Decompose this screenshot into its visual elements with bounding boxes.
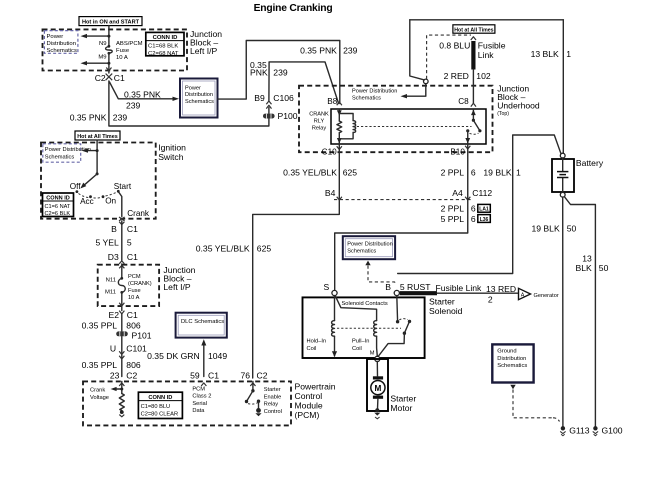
dashed wire from node to Hot at All Times: [427, 35, 471, 79]
svg-text:10 A: 10 A: [116, 55, 128, 61]
reference box Power Distribution Schematics (double border): [180, 79, 218, 118]
relay switch blade: [473, 120, 480, 131]
battery internal plates: [562, 158, 564, 192]
junction block - left I/P dashed box (PCM CRANK fuse): [98, 265, 159, 306]
svg-text:DLC Schematics: DLC Schematics: [181, 319, 224, 325]
svg-text:625: 625: [257, 243, 272, 253]
svg-text:0.35 DK GRN: 0.35 DK GRN: [147, 351, 200, 361]
solenoid contact pivot and blade: [399, 319, 408, 320]
svg-text:0.35 PNK: 0.35 PNK: [70, 112, 107, 122]
svg-text:Distribution: Distribution: [497, 356, 526, 362]
connector chevron at box exit: [106, 68, 111, 71]
svg-text:239: 239: [126, 100, 141, 110]
svg-text:5: 5: [127, 237, 132, 247]
svg-text:M9: M9: [98, 54, 106, 60]
fuse ABS/PCM 10A: [106, 47, 113, 54]
wire fusible link to C8: [472, 70, 474, 104]
svg-text:76: 76: [240, 371, 250, 381]
node circle (power feed tap): [424, 79, 429, 84]
wire battery bottom to G113: [562, 197, 564, 426]
connector X at ignition box exit: [119, 217, 125, 221]
reference box Ground Distribution Schematics: [492, 344, 533, 382]
reference box Power Distribution Schematics (top-left, dashed blue): [44, 31, 78, 54]
switch blade toward Off: [84, 174, 98, 186]
fusible link (5 RUST) thick bar: [400, 291, 437, 295]
battery terminal bottom: [560, 192, 565, 197]
ground G100: [593, 426, 597, 430]
svg-text:239: 239: [113, 112, 128, 122]
solenoid internal dashed link: [337, 327, 401, 329]
svg-text:Module: Module: [295, 400, 323, 410]
svg-text:B: B: [385, 282, 391, 292]
wire B to contact dot: [396, 296, 399, 322]
svg-text:Serial: Serial: [192, 401, 207, 407]
svg-text:102: 102: [476, 71, 491, 81]
relay coil branch with arrows: [338, 109, 340, 121]
svg-text:Generator: Generator: [534, 293, 559, 299]
svg-text:C1=6 NAT: C1=6 NAT: [45, 204, 71, 210]
svg-text:C1: C1: [127, 224, 138, 234]
svg-text:M: M: [374, 384, 381, 393]
svg-text:P101: P101: [132, 331, 152, 341]
svg-text:6: 6: [471, 167, 476, 177]
svg-text:C2: C2: [257, 371, 268, 381]
svg-text:19 BLK: 19 BLK: [531, 223, 559, 233]
relay switch: C8 leg with up arrow: [472, 109, 474, 120]
svg-text:C1: C1: [127, 310, 138, 320]
svg-text:Distribution: Distribution: [47, 41, 76, 47]
svg-text:B9: B9: [254, 93, 265, 103]
wire ignition B to D3: [121, 221, 123, 261]
svg-text:C106: C106: [273, 93, 294, 103]
tag Hot in ON and START: [79, 17, 142, 26]
svg-text:Coil: Coil: [352, 346, 362, 352]
svg-text:2 PPL: 2 PPL: [441, 204, 465, 214]
fuse PCM (CRANK) 10A: [118, 279, 125, 293]
svg-text:1: 1: [566, 49, 571, 59]
pull-in coil: [374, 321, 377, 337]
conn id box (C1=6 NAT / C2=6 BLK): [43, 193, 74, 217]
connector C2/C1 X symbol: [106, 74, 113, 81]
dashed reference wire to G113: [510, 385, 515, 390]
svg-text:0.35 YEL/BLK: 0.35 YEL/BLK: [283, 167, 337, 177]
relay switch to B10 with down arrow: [467, 131, 469, 144]
motor ground dot and arrow: [375, 408, 379, 412]
svg-text:B8: B8: [327, 97, 337, 106]
svg-text:Schematics: Schematics: [497, 363, 527, 369]
svg-text:Schematics: Schematics: [185, 99, 214, 105]
node dot at M9 branch: [107, 62, 110, 65]
svg-text:Off: Off: [70, 182, 81, 191]
wire fuse to E2: [121, 293, 123, 311]
wire S to hold-in coil: [334, 296, 336, 321]
svg-text:C2=80 CLEAR: C2=80 CLEAR: [141, 412, 178, 418]
reference box Power Distribution Schematics (solenoid B): [343, 236, 395, 259]
svg-text:Power: Power: [47, 34, 64, 40]
wire from PDS box right edge up and over to relay B8: [218, 41, 340, 104]
svg-text:Coil: Coil: [307, 346, 317, 352]
svg-text:Crank: Crank: [90, 388, 105, 394]
svg-text:50: 50: [567, 223, 577, 233]
svg-text:C1: C1: [127, 252, 138, 262]
connector chevron at fuse box exit: [119, 303, 124, 306]
svg-text:806: 806: [126, 321, 141, 331]
svg-text:Power: Power: [185, 86, 201, 92]
svg-text:6: 6: [471, 204, 476, 214]
wire M terminal to motor: [376, 362, 379, 410]
reference box DLC Schematics (double border): [176, 313, 227, 338]
svg-text:Battery: Battery: [576, 158, 604, 168]
connector chevron into PCM (23): [119, 383, 124, 386]
node dot at N9 branch: [107, 35, 110, 38]
svg-text:C1: C1: [208, 371, 219, 381]
svg-text:Ignition: Ignition: [158, 142, 186, 152]
splice P100: [263, 114, 275, 119]
svg-text:Switch: Switch: [158, 152, 184, 162]
wire arrow to power distribution (ignition): [85, 150, 97, 152]
svg-text:Hot at All Times: Hot at All Times: [454, 27, 493, 33]
wire fuse to C2 connector: [108, 54, 110, 74]
wire S to pull-in coil: [335, 296, 376, 321]
svg-text:Start: Start: [114, 182, 132, 191]
svg-text:G100: G100: [602, 426, 623, 436]
svg-text:Power Distribution: Power Distribution: [352, 89, 397, 95]
tag Hot at All Times (underhood): [453, 25, 495, 33]
svg-text:Engine Cranking: Engine Cranking: [254, 3, 333, 14]
crank voltage sense: wire and arrow: [121, 381, 123, 393]
svg-text:U: U: [110, 344, 116, 354]
top loop wire to battery: [410, 19, 564, 21]
svg-text:0.35 PNK: 0.35 PNK: [124, 89, 161, 99]
wire P100 up to C106: [268, 108, 270, 114]
svg-text:RLY: RLY: [314, 119, 325, 125]
svg-text:806: 806: [126, 360, 141, 370]
junction block - underhood dashed box: [299, 86, 493, 153]
wire 2 PPL 6 from B10 through C112 to solenoid S: [335, 144, 468, 290]
svg-text:Ground: Ground: [497, 348, 516, 354]
svg-text:ABS/PCM: ABS/PCM: [116, 41, 143, 47]
svg-text:Solenoid Contacts: Solenoid Contacts: [342, 301, 388, 307]
svg-text:Schematics: Schematics: [352, 96, 381, 102]
splice P101: [116, 331, 128, 336]
svg-text:PCM: PCM: [192, 386, 205, 392]
wire contact to M: [379, 333, 405, 356]
svg-text:Hot at All Times: Hot at All Times: [77, 134, 117, 140]
svg-text:P100: P100: [278, 111, 298, 121]
svg-text:L36: L36: [480, 217, 489, 223]
wire arrow pointing to Power Distribution Schematics: [404, 84, 426, 97]
svg-text:B4: B4: [325, 188, 336, 198]
svg-text:N9: N9: [99, 41, 107, 47]
wire 13 BLK 50 from battery bottom to G100: [564, 197, 595, 427]
battery: [552, 159, 574, 192]
relay box CRANK RLY: [331, 109, 486, 144]
connector chevron into PCM (59): [201, 383, 206, 386]
svg-text:59: 59: [190, 371, 200, 381]
starter motor box: [367, 359, 388, 411]
svg-text:C2=68 NAT: C2=68 NAT: [148, 51, 179, 57]
svg-text:0.35 PNK: 0.35 PNK: [300, 45, 337, 55]
svg-text:C1: C1: [114, 73, 125, 83]
wire into PCM CRANK fuse: [121, 264, 123, 278]
svg-text:Relay: Relay: [312, 126, 327, 132]
motor brushes: [373, 376, 383, 379]
svg-text:B10: B10: [450, 148, 465, 157]
svg-text:CONN ID: CONN ID: [153, 35, 178, 41]
svg-text:LA1: LA1: [479, 207, 489, 213]
svg-text:Fusible: Fusible: [478, 41, 506, 51]
wire 0.35 PNK 239 from C2 down and right to P100: [109, 81, 269, 126]
svg-text:M11: M11: [105, 289, 116, 295]
svg-text:Relay: Relay: [264, 402, 279, 408]
battery terminal top: [560, 153, 565, 158]
svg-text:Pull–In: Pull–In: [352, 339, 369, 345]
switch position arc: [79, 192, 117, 198]
svg-text:Starter: Starter: [429, 296, 455, 306]
junction block - left I/P dashed box (top): [43, 29, 188, 70]
svg-text:Underhood: Underhood: [497, 101, 540, 111]
svg-text:Schematics: Schematics: [45, 154, 75, 160]
wire to generator: [437, 292, 518, 294]
svg-text:Motor: Motor: [390, 403, 412, 413]
svg-text:G113: G113: [569, 426, 590, 436]
svg-text:C101: C101: [126, 344, 147, 354]
svg-text:Powertrain: Powertrain: [295, 381, 336, 391]
connector chevron below: [119, 222, 124, 225]
svg-text:Data: Data: [192, 408, 205, 414]
fusible link (0.8 BLU) thick bar: [471, 41, 475, 70]
node dot ignition feed: [96, 149, 99, 152]
wire from Hot tag to fuse N9: [108, 26, 110, 46]
svg-text:(CRANK): (CRANK): [128, 281, 152, 287]
svg-text:C1=68 BLK: C1=68 BLK: [148, 44, 178, 50]
wire arrow to power distribution (upper): [84, 35, 109, 37]
wire 13 BLK 1 down to battery: [562, 20, 564, 153]
hold-in coil: [332, 321, 335, 337]
svg-text:Fuse: Fuse: [116, 48, 130, 54]
svg-text:C112: C112: [472, 188, 492, 198]
connector chevron at fusible link top: [471, 37, 476, 40]
svg-text:1049: 1049: [208, 351, 227, 361]
svg-text:50: 50: [599, 263, 609, 273]
conn id box (C1=80 BLU / C2=80 CLEAR): [138, 392, 182, 418]
dashed reference wire from B to box: [365, 261, 370, 266]
svg-text:Left I/P: Left I/P: [190, 46, 217, 56]
inline connector C112 dashed line: [334, 199, 472, 201]
svg-text:Solenoid: Solenoid: [429, 306, 463, 316]
svg-text:Enable: Enable: [264, 394, 281, 400]
relay coil resistor zigzag: [337, 121, 342, 133]
svg-text:C2: C2: [95, 73, 106, 83]
relay switch contact and throw arc: [466, 129, 469, 132]
internal ground dot: [120, 410, 124, 414]
wire hot tag into ignition switch: [96, 140, 98, 174]
generator triangle A: [519, 288, 531, 299]
wire 0.35 YEL/BLK 625 from C10 to B4 and left down to PCM 76: [253, 144, 340, 378]
svg-text:Class 2: Class 2: [192, 394, 211, 400]
svg-text:5 YEL: 5 YEL: [96, 237, 119, 247]
starter solenoid box: [303, 297, 425, 358]
svg-text:S: S: [323, 282, 329, 292]
ground G113: [561, 426, 565, 430]
svg-text:B: B: [111, 224, 117, 234]
svg-text:CRANK: CRANK: [309, 112, 329, 118]
svg-text:Fuse: Fuse: [128, 288, 141, 294]
svg-text:C2: C2: [126, 371, 137, 381]
svg-text:2: 2: [488, 294, 493, 304]
motor symbol M: [371, 381, 385, 395]
svg-text:C10: C10: [322, 148, 337, 157]
svg-text:C2=6 BLK: C2=6 BLK: [45, 211, 71, 217]
svg-text:10 A: 10 A: [128, 295, 140, 301]
svg-text:Distribution: Distribution: [185, 92, 213, 98]
svg-text:Left I/P: Left I/P: [163, 282, 190, 292]
wire P101 to C101: [121, 337, 123, 377]
svg-text:CONN ID: CONN ID: [46, 196, 70, 202]
svg-text:Control: Control: [264, 409, 282, 415]
wire arrow to power distribution (lower): [84, 62, 109, 64]
svg-text:625: 625: [343, 167, 358, 177]
svg-text:C8: C8: [458, 97, 469, 106]
svg-text:M: M: [370, 350, 375, 356]
pull-in coil to M terminal: [376, 336, 379, 356]
wire 0.35 PNK 239 diagonal from C1 to Power Distribution Schematics box: [110, 82, 176, 99]
svg-text:13 RED: 13 RED: [486, 284, 516, 294]
svg-text:5 PPL: 5 PPL: [441, 214, 465, 224]
svg-text:239: 239: [273, 68, 288, 78]
svg-text:Voltage: Voltage: [90, 395, 109, 401]
svg-text:0.35 PPL: 0.35 PPL: [82, 360, 118, 370]
svg-text:On: On: [105, 197, 116, 206]
svg-text:A: A: [521, 293, 525, 299]
svg-text:Link: Link: [478, 50, 494, 60]
relay coil winding loop: [339, 114, 353, 139]
svg-text:Crank: Crank: [127, 209, 150, 218]
svg-text:Hold–In: Hold–In: [307, 339, 327, 345]
connector chevrons D3/C1: [119, 261, 124, 264]
svg-text:(PCM): (PCM): [295, 410, 320, 420]
relay internal dashed link: [357, 126, 472, 128]
svg-text:A4: A4: [452, 188, 463, 198]
wire Start to Crank contact: [119, 192, 122, 217]
svg-text:PCM: PCM: [128, 274, 141, 280]
svg-text:Schematics: Schematics: [47, 48, 78, 54]
tag Hot at All Times (ignition): [75, 131, 120, 140]
svg-text:2 PPL: 2 PPL: [441, 167, 465, 177]
reference box Power Distribution Schematics (ignition, dashed blue): [43, 144, 81, 162]
svg-text:13 BLK: 13 BLK: [531, 49, 559, 59]
ignition switch dashed box: [41, 143, 156, 219]
svg-text:13: 13: [582, 253, 592, 263]
svg-text:CONN ID: CONN ID: [148, 395, 172, 401]
svg-text:2 RED: 2 RED: [444, 71, 469, 81]
svg-text:N11: N11: [106, 277, 116, 283]
svg-text:C1=80 BLU: C1=80 BLU: [141, 404, 171, 410]
svg-text:Starter: Starter: [390, 393, 416, 403]
PCM dashed box: [83, 381, 291, 425]
svg-text:E2: E2: [108, 310, 119, 320]
svg-text:Acc: Acc: [80, 197, 94, 206]
connector chevron E2/C1: [119, 311, 124, 314]
svg-text:Starter: Starter: [264, 387, 281, 393]
resistor (crank voltage pull-up): [119, 394, 124, 411]
svg-text:Fusible Link: Fusible Link: [436, 283, 483, 293]
svg-text:0.8 BLU: 0.8 BLU: [439, 41, 470, 51]
hold-in coil to case ground arrow: [334, 336, 336, 356]
conn id box (C1=68 BLK / C2=68 NAT): [146, 32, 184, 55]
connector chevrons U/C101: [119, 351, 124, 354]
node dot switch pivot: [96, 172, 99, 175]
connector B9/C106 chevrons: [266, 101, 271, 104]
svg-text:D3: D3: [108, 252, 119, 262]
connector chevron into PCM (76): [250, 383, 255, 386]
svg-text:Power Distribution: Power Distribution: [347, 241, 392, 247]
svg-text:19 BLK: 19 BLK: [483, 167, 511, 177]
wire 19 BLK 1 from battery top to solenoid B: [398, 135, 561, 274]
svg-text:Schematics: Schematics: [347, 249, 376, 255]
starter enable relay control switch: [252, 381, 254, 390]
svg-text:5 RUST: 5 RUST: [400, 282, 431, 292]
svg-text:0.35 PPL: 0.35 PPL: [82, 321, 118, 331]
svg-text:PNK: PNK: [250, 68, 268, 78]
svg-text:Hot in ON and START: Hot in ON and START: [82, 20, 140, 26]
wire E2 to P101: [121, 314, 123, 331]
svg-text:6: 6: [471, 214, 476, 224]
svg-text:23: 23: [110, 371, 120, 381]
wire from top loop into node circle: [410, 20, 425, 80]
wire C106 up, over, diagonal to relay B8: [269, 62, 339, 104]
svg-text:1: 1: [516, 167, 521, 177]
wire DLC to PCM 59 with up arrow: [203, 345, 205, 377]
svg-text:239: 239: [343, 45, 358, 55]
svg-text:BLK: BLK: [576, 263, 593, 273]
svg-text:(Top): (Top): [497, 111, 509, 117]
svg-text:0.35 YEL/BLK: 0.35 YEL/BLK: [196, 243, 250, 253]
svg-text:Control: Control: [295, 391, 323, 401]
